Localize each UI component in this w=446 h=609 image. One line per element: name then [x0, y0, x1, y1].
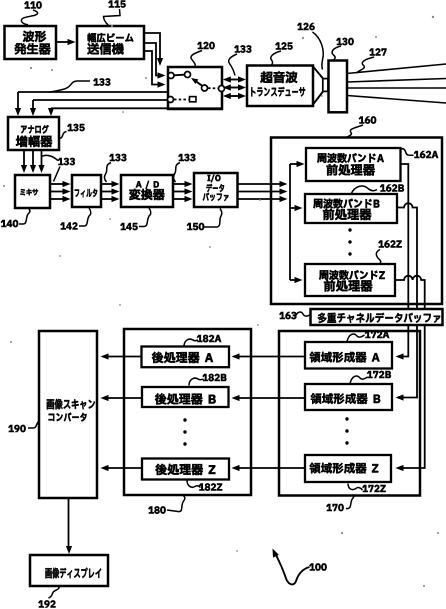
wire amp to mixer 2: [32, 150, 34, 169]
switch dashed terminal square: [190, 97, 197, 102]
label 182A: [197, 335, 202, 342]
postproc dots: [183, 418, 186, 421]
label 162Z: [378, 241, 383, 248]
label 133 ad-io: [178, 154, 183, 161]
wire filter-ad 3: [101, 198, 115, 200]
scan line 127 d: [347, 96, 446, 104]
label 142: [60, 223, 65, 230]
label 133 filter-ad: [109, 154, 114, 161]
block 145 AD converter: [121, 175, 173, 207]
block 190 text: [47, 399, 54, 409]
bus line 3: [51, 107, 222, 109]
label 182B: [203, 374, 208, 381]
label 163: [279, 312, 284, 319]
block 170 beamformer bank box: [279, 331, 420, 496]
label 133 amp-mixer: [58, 158, 63, 165]
wire transmitter out 1: [144, 33, 160, 62]
block 172Z text: [309, 463, 320, 474]
block 192 image display: [30, 555, 108, 586]
label 190: [8, 425, 13, 432]
wire bus to preB: [290, 207, 298, 209]
block 120 switch box: [168, 67, 222, 109]
label 125: [275, 43, 280, 50]
block 150 IO data buffer: [194, 173, 238, 207]
block 162B text: [313, 199, 322, 208]
label 162B: [380, 185, 385, 192]
wire transducer bidirectional 2: [227, 87, 241, 89]
wire io-preproc 2: [238, 191, 284, 193]
label 172Z: [362, 485, 367, 492]
paper specks: [111, 25, 113, 27]
wire postB to scanconv: [105, 397, 142, 399]
block 115 wide beam transmitter: [77, 26, 144, 59]
label 130: [336, 38, 341, 45]
wire mixer-filter 2: [50, 191, 66, 193]
wire bus to preA: [290, 163, 300, 165]
block 135 analog amplifier: [8, 117, 59, 150]
block 130 lens slab: [329, 61, 348, 113]
wire buffer to bfB: [400, 325, 417, 398]
bus drop 2: [32, 100, 34, 111]
block 125 ultrasonic transducer: [247, 66, 313, 107]
block 172A text: [309, 352, 320, 363]
wire bfB to postB: [236, 397, 305, 399]
wire io-preproc 3: [238, 198, 284, 200]
block 140 text: [20, 189, 25, 195]
scan line 127 a: [347, 64, 446, 74]
block 182B text: [155, 393, 166, 404]
block 145 text: [136, 181, 142, 187]
switch contact B: [185, 72, 191, 78]
wire ad-io 3: [173, 198, 188, 200]
wire mixer-filter 3: [50, 198, 66, 200]
wire transmitter out 3: [144, 51, 161, 85]
wire buffer to bfZ: [400, 325, 425, 468]
bus line 1: [18, 91, 168, 93]
label 172B: [367, 371, 372, 378]
wire amp to mixer 1: [23, 150, 25, 169]
block 150 text: [208, 175, 211, 181]
wire C to D dotted: [208, 87, 218, 89]
wire preB out with hop: [397, 203, 417, 309]
block 182A text: [152, 352, 163, 363]
scan line 127 c: [347, 87, 446, 89]
block 162A text: [317, 153, 326, 162]
block 135 text: [21, 126, 27, 133]
wire preZ out with hops: [395, 276, 425, 309]
switch contact A: [168, 73, 174, 79]
block 140 mixer: [15, 175, 50, 208]
block 192 text: [45, 568, 51, 578]
preproc dots: [348, 228, 351, 231]
label 162A: [414, 151, 419, 158]
label 127: [369, 49, 374, 56]
label 126: [297, 23, 302, 30]
block 180 postprocessor bank box: [124, 329, 251, 495]
beamformer dots: [345, 417, 348, 420]
block 160 preprocessor bank box: [271, 138, 442, 305]
wire amp to mixer 3: [41, 150, 43, 169]
switch contact D: [219, 86, 225, 92]
block 172Z beamformer Z: [305, 455, 391, 482]
label 160: [359, 117, 364, 124]
wire transmitter out 2: [144, 43, 161, 76]
label 192: [38, 601, 43, 608]
transducer coupler rect: [323, 79, 328, 92]
block 110 text: [23, 31, 34, 42]
wire filter-ad 2: [101, 191, 115, 193]
wire transducer bidirectional 1: [227, 79, 241, 81]
scan line 127 b: [347, 79, 446, 83]
block 125 text: [260, 71, 272, 83]
wire preA out: [401, 164, 409, 309]
transducer taper upper: [313, 67, 323, 79]
block 163 text: [318, 313, 327, 323]
wire postA to scanconv: [105, 356, 142, 358]
system reference arrow: [276, 555, 310, 584]
label 172A: [365, 331, 370, 338]
block 163 multichannel data buffer: [311, 309, 443, 325]
block 110 waveform generator: [5, 26, 57, 59]
label 135: [67, 124, 72, 131]
bus line 2: [33, 99, 167, 101]
block 162Z preprocessor Z: [305, 264, 395, 296]
block 182A postprocessor A: [142, 347, 230, 368]
wire bus to preZ: [290, 279, 298, 281]
label 133 receive bus: [93, 79, 98, 86]
label 150: [187, 223, 192, 230]
label 115: [108, 1, 113, 8]
label 145: [120, 223, 125, 230]
switch contact E: [168, 97, 174, 103]
wire ad-io 2: [173, 191, 188, 193]
transducer taper lower: [313, 92, 323, 105]
bus drop 1: [17, 92, 19, 111]
label 133 transducer lines: [234, 46, 239, 53]
wire transducer bidirectional 3: [227, 95, 241, 97]
block 162B preprocessor B: [305, 194, 397, 223]
wire bfA to postA: [236, 356, 305, 358]
block 190 image scan converter: [39, 331, 97, 498]
label 120: [197, 42, 202, 49]
switch arm: [193, 80, 202, 86]
block 142 filter: [72, 175, 101, 207]
label 100: [309, 564, 314, 571]
label 182Z: [199, 484, 204, 491]
block 162Z text: [319, 270, 328, 279]
switch contact C: [202, 85, 208, 91]
label 180: [148, 507, 153, 514]
label 170: [326, 504, 331, 511]
block 172B text: [311, 393, 322, 404]
block 115 text: [88, 33, 96, 42]
wire mixer-filter 1: [50, 183, 66, 185]
block 182Z text: [155, 464, 166, 475]
wire filter-ad 1: [101, 183, 115, 185]
block 172A beamformer A: [305, 342, 392, 369]
wire A to B: [174, 74, 184, 77]
label 140: [1, 220, 6, 227]
wire io-preproc 1: [238, 183, 284, 185]
block 182B postprocessor B: [142, 387, 229, 407]
wire ad-io 1: [173, 183, 188, 185]
block 182Z postprocessor Z: [142, 459, 229, 480]
wire scanconv to display: [68, 498, 70, 549]
block 172B beamformer B: [305, 384, 392, 410]
preproc input bus vertical: [289, 164, 291, 280]
wire bfZ to postZ: [236, 467, 305, 469]
wire E dashed: [174, 99, 189, 101]
block 142 text: [75, 189, 79, 196]
wire waveform to transmitter: [56, 41, 71, 43]
wire postZ to scanconv: [105, 467, 142, 469]
wire buffer to bfA: [400, 325, 408, 357]
bus drop 3: [50, 108, 52, 111]
label 110: [24, 2, 29, 9]
block 162A preprocessor A: [306, 148, 401, 181]
